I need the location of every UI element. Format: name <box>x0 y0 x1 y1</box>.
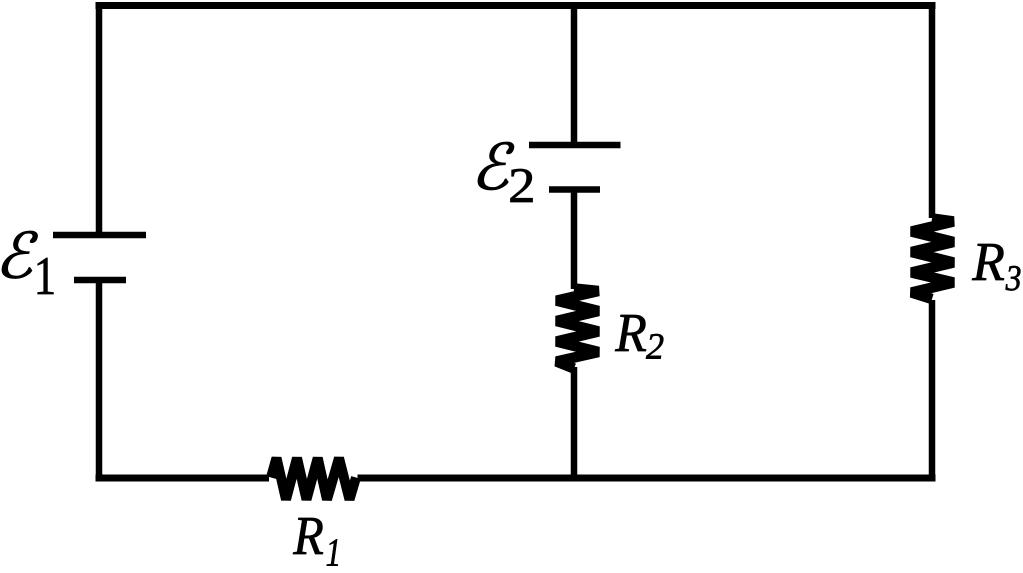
resistor R3 zigzag <box>912 219 954 300</box>
wire middle mid <box>571 190 578 289</box>
battery E1 short plate <box>74 277 126 284</box>
label E1 subscript 1 <box>38 258 54 294</box>
battery E1 long plate <box>53 232 146 239</box>
label E2 subscript 2 <box>511 169 533 202</box>
label R3 subscript 3 <box>1006 266 1021 291</box>
resistor R2 zigzag <box>557 289 599 369</box>
label EMF E2 script E <box>478 142 514 190</box>
wire right upper <box>929 2 936 218</box>
wire bottom left <box>96 475 270 482</box>
wire top <box>96 2 936 9</box>
wire right lower <box>929 300 936 482</box>
wire bottom right <box>358 475 936 482</box>
label resistor R2 <box>615 315 646 351</box>
label R1 subscript 1 <box>327 539 338 565</box>
battery E2 long plate <box>529 142 621 149</box>
resistor R1 zigzag <box>271 458 356 500</box>
label R2 subscript 2 <box>646 334 663 359</box>
label resistor R1 <box>293 518 323 554</box>
battery E2 short plate <box>549 186 600 193</box>
wire left upper <box>96 2 103 232</box>
wire left lower <box>96 278 103 482</box>
wire middle lower <box>571 367 578 478</box>
label EMF E1 script E <box>2 231 37 279</box>
wire middle upper <box>571 2 578 145</box>
label resistor R3 <box>972 244 1004 280</box>
